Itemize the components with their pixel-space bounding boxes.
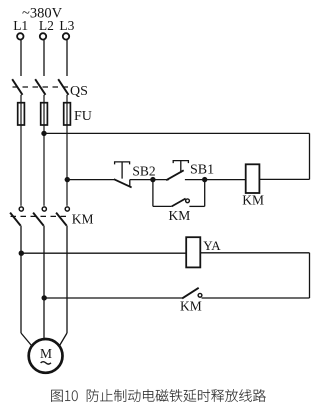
wire branch left vertical — [152, 180, 154, 207]
caption 图10 — [51, 390, 77, 402]
wire L1 terminal to QS — [20, 40, 22, 76]
pushbutton SB2 right terminal tick — [129, 180, 131, 187]
wire QS pole3 down through fuse FU3 — [66, 95, 68, 206]
contact KM auxiliary terminal circle — [186, 199, 190, 203]
node junction SB2/branch — [150, 177, 155, 182]
wire branch bottom left — [153, 205, 172, 207]
wire QS pole1 down through fuse FU1 — [20, 95, 22, 206]
wire KM coil to right drop — [259, 178, 309, 180]
svg-text:SB2: SB2 — [132, 163, 155, 178]
wire L1 KM contact to motor — [20, 226, 22, 333]
contact KM bottom terminal circle — [198, 293, 202, 297]
contactor KM pole 1 blade — [10, 213, 21, 226]
wire L2 terminal to QS — [43, 40, 45, 76]
fuse FU3 — [64, 103, 71, 125]
svg-text:FU: FU — [74, 109, 92, 124]
node junction L3 control row — [65, 177, 70, 182]
contactor KM pole 2 terminal circle — [42, 207, 46, 211]
contactor KM pole 1 terminal circle — [19, 207, 23, 211]
terminal L2 — [40, 33, 46, 39]
coil YA — [186, 237, 200, 267]
svg-text:KM: KM — [242, 193, 264, 208]
svg-text:KM: KM — [180, 298, 202, 313]
contactor KM pole 3 blade — [56, 213, 67, 226]
svg-text:L2: L2 — [39, 18, 54, 33]
wire L1 diagonal into motor — [21, 333, 32, 346]
wire L2 KM contact to motor — [43, 226, 45, 340]
wire L3 to SB2 — [67, 179, 114, 181]
wire top control feed horizontal — [44, 132, 310, 134]
fuse FU1 — [18, 103, 25, 125]
svg-text:KM: KM — [169, 208, 191, 223]
motor AC tilde — [41, 362, 51, 364]
caption 防止制动电磁铁延时释放线路 — [87, 389, 266, 402]
wire SB2 to node — [130, 179, 153, 181]
wire L3 KM contact to motor — [66, 226, 68, 333]
node junction L2 bottom row — [42, 295, 47, 300]
switch QS pole 2 blade — [35, 79, 45, 95]
motor M circle — [29, 339, 63, 373]
wire YA coil to right drop — [200, 252, 309, 254]
coil KM — [246, 164, 260, 193]
switch QS mechanical link (dashed) — [13, 86, 69, 88]
terminal L1 — [17, 33, 23, 39]
wire right drop YA to KM contact row — [309, 253, 311, 298]
wire SB1 to KM coil — [185, 179, 246, 181]
wire right drop to KM coil — [309, 133, 311, 179]
svg-text:KM: KM — [72, 211, 94, 226]
terminal L3 — [63, 33, 69, 39]
wire branch right vertical — [204, 180, 206, 207]
wire L1 to YA coil — [21, 252, 186, 254]
fuse FU2 — [41, 103, 48, 125]
wire QS pole2 down through fuse FU2 — [43, 95, 45, 206]
switch QS pole 3 blade — [58, 79, 68, 95]
contact KM bottom blade — [182, 288, 199, 299]
wire L3 terminal to QS — [66, 40, 68, 76]
svg-text:SB1: SB1 — [190, 163, 214, 178]
node junction L1 YA row — [19, 251, 24, 256]
svg-text:QS: QS — [70, 84, 88, 99]
pushbutton SB2 NC blade — [114, 179, 132, 187]
switch QS pole 1 blade — [12, 79, 22, 95]
pushbutton SB1 plunger — [173, 161, 188, 173]
pushbutton SB1 NO blade — [166, 170, 184, 180]
wire bottom KM contact to right drop — [202, 297, 310, 299]
wire L2 to bottom KM contact — [44, 297, 182, 299]
svg-text:YA: YA — [203, 238, 221, 253]
wire branch bottom right — [189, 205, 204, 207]
contact KM auxiliary blade — [172, 199, 186, 207]
svg-text:L1: L1 — [13, 18, 28, 33]
contactor KM pole 3 terminal circle — [65, 207, 69, 211]
svg-text:L3: L3 — [59, 18, 74, 33]
pushbutton SB2 plunger — [115, 162, 130, 179]
wire node to SB1 — [153, 179, 169, 181]
node junction L2 control feed — [41, 131, 46, 136]
contactor KM mechanical link (dashed) — [11, 215, 67, 217]
svg-text:M: M — [40, 346, 52, 361]
wire L3 diagonal into motor — [59, 333, 67, 346]
contactor KM pole 2 blade — [33, 213, 44, 226]
node junction SB1/branch — [202, 177, 207, 182]
